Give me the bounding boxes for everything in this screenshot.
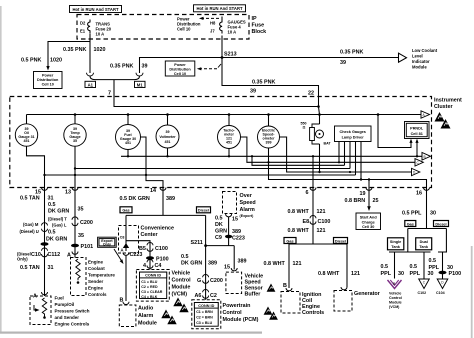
svg-text:7: 7 xyxy=(108,91,111,97)
label box Diesel (pin6) xyxy=(334,238,348,244)
pin 14 bracket xyxy=(150,188,166,195)
svg-text:P100: P100 xyxy=(449,271,462,277)
driver output wires xyxy=(339,142,361,180)
svg-text:0.5 TAN: 0.5 TAN xyxy=(20,265,40,271)
connector G C200 xyxy=(197,275,223,285)
svg-text:35: 35 xyxy=(78,233,84,239)
svg-text:C10: C10 xyxy=(31,252,41,258)
svg-text:B: B xyxy=(424,155,426,159)
over speed alarm dashed box xyxy=(223,192,256,219)
dashed arrow to Power Distribution note xyxy=(199,17,219,20)
svg-text:30: 30 xyxy=(430,211,436,217)
svg-text:0.35 PNK: 0.35 PNK xyxy=(63,47,86,53)
svg-text:C104: C104 xyxy=(436,291,445,295)
svg-text:15: 15 xyxy=(232,217,238,223)
wire 39 S213 to low coolant module xyxy=(222,57,398,59)
svg-text:Indicator: Indicator xyxy=(412,59,430,64)
label 0.35 PNK 39 (to M1) xyxy=(110,64,148,70)
svg-text:Generator: Generator xyxy=(354,291,381,297)
arrow into Power Distribution xyxy=(46,66,49,71)
svg-text:C223: C223 xyxy=(232,236,245,242)
svg-text:15: 15 xyxy=(224,265,230,271)
connector C200 T L xyxy=(48,217,93,228)
svg-text:0.35 PNK: 0.35 PNK xyxy=(252,80,275,86)
instrument cluster dashed box xyxy=(10,97,432,188)
svg-text:Alarm: Alarm xyxy=(240,207,255,213)
svg-text:Cluster: Cluster xyxy=(434,104,453,110)
arrows into PRNDL xyxy=(409,139,418,143)
wire speedo output xyxy=(280,137,412,172)
svg-text:16: 16 xyxy=(416,191,422,197)
ESD triangles near VCM xyxy=(161,298,188,325)
audio alarm module dashed box xyxy=(119,305,136,327)
wire oil tap to driver xyxy=(45,174,356,176)
svg-text:Audio: Audio xyxy=(138,306,154,312)
svg-text:A: A xyxy=(121,248,124,253)
svg-text:451: 451 xyxy=(165,140,171,144)
svg-text:31: 31 xyxy=(48,196,54,202)
svg-text:C4 = BLK: C4 = BLK xyxy=(141,295,157,299)
label DK GRN 389 15 (VSS) xyxy=(224,259,247,271)
svg-text:Vehicle: Vehicle xyxy=(172,271,191,277)
label Ignition Coil Engine Controls xyxy=(302,292,324,316)
svg-text:14: 14 xyxy=(150,188,156,194)
tachometer xyxy=(218,115,241,149)
svg-text:P101: P101 xyxy=(81,244,94,250)
fuse F4 GAUGES pins H8 J7 xyxy=(210,21,216,34)
convenience center xyxy=(119,226,175,254)
svg-text:0.5: 0.5 xyxy=(48,202,56,208)
svg-text:0.5: 0.5 xyxy=(215,216,223,222)
svg-text:(Diesel) T: (Diesel) T xyxy=(48,217,67,222)
svg-text:(Gas) M: (Gas) M xyxy=(23,222,39,227)
svg-text:451: 451 xyxy=(24,139,30,143)
svg-text:C100: C100 xyxy=(155,246,168,252)
grommet on pin15 wire xyxy=(41,242,49,246)
svg-text:C1 = BLU: C1 = BLU xyxy=(141,280,157,284)
svg-text:Pump/Oil: Pump/Oil xyxy=(55,302,75,307)
svg-text:PPL: PPL xyxy=(381,271,392,277)
svg-text:Instrument: Instrument xyxy=(434,98,462,104)
VSS buffer dashed box xyxy=(226,272,242,293)
low coolant level module connector triangle xyxy=(399,53,407,62)
svg-text:Distribution: Distribution xyxy=(37,78,59,82)
generator dashed box xyxy=(334,287,381,311)
node S213 xyxy=(221,52,237,59)
connector C102 triangle xyxy=(418,279,430,295)
wire 39 from fuse F4 to S213 xyxy=(221,36,223,58)
svg-text:C3 = CLEAR: C3 = CLEAR xyxy=(141,290,162,294)
wire S211 down to PCM xyxy=(205,246,207,300)
svg-text:(VCM): (VCM) xyxy=(172,292,188,298)
svg-text:Buffer: Buffer xyxy=(245,292,262,298)
wire pin 6 inside cluster xyxy=(312,156,314,187)
wire S211 to overspeed and VSS xyxy=(206,217,235,270)
label Vehicle Control Module VCM xyxy=(172,271,192,298)
connector A6 C2 xyxy=(195,289,217,299)
svg-text:Lamp Driver: Lamp Driver xyxy=(342,136,365,140)
wire speedo to pin 16 xyxy=(269,148,427,188)
label 0.8 WHT 121 (upper) xyxy=(288,209,326,215)
svg-text:389: 389 xyxy=(238,259,247,265)
svg-text:Control: Control xyxy=(389,296,402,300)
svg-text:0.5: 0.5 xyxy=(429,258,437,264)
dashed arrow from S213 to Power Distribution xyxy=(197,64,221,70)
svg-text:Diesel: Diesel xyxy=(198,209,209,213)
junction dots on bus xyxy=(74,105,380,116)
fuse F20 TRANS symbol xyxy=(88,20,90,34)
connector triangle A (bus out) xyxy=(421,111,430,118)
svg-text:Engine Controls: Engine Controls xyxy=(55,322,90,327)
svg-text:0.35 PNK: 0.35 PNK xyxy=(110,64,133,70)
wire pin 19 inside cluster xyxy=(368,180,370,188)
fuel pump oil pressure switch module xyxy=(30,292,90,327)
svg-text:10 A: 10 A xyxy=(96,32,105,37)
svg-text:A1: A1 xyxy=(88,82,94,87)
label Vehicle Speed Sensor Buffer xyxy=(245,274,264,298)
svg-text:121: 121 xyxy=(351,271,360,277)
connector triangle D xyxy=(412,168,420,175)
svg-text:Over: Over xyxy=(240,193,253,199)
svg-text:DK: DK xyxy=(215,222,223,228)
grommet P101 xyxy=(71,244,93,250)
label TRANS Fuse 20 10 A xyxy=(96,22,112,37)
wire pin 22 to lamp xyxy=(319,97,320,173)
wire WHT 121 pin6 down xyxy=(289,188,347,289)
label box Diesel (pin16) xyxy=(434,221,449,227)
svg-text:0.5: 0.5 xyxy=(48,230,56,236)
svg-text:C3 = BLU: C3 = BLU xyxy=(196,321,212,325)
svg-text:30: 30 xyxy=(428,271,434,277)
connector C223 A xyxy=(121,248,143,259)
tap to VCM via B5 C100 xyxy=(126,241,150,270)
svg-text:15: 15 xyxy=(35,189,41,195)
ignition coil dashed box xyxy=(281,292,300,314)
svg-text:H8: H8 xyxy=(210,21,216,26)
wire PNK 1020 from fuse F20 xyxy=(48,34,90,73)
svg-text:Cell 81: Cell 81 xyxy=(411,132,423,136)
grommet P100 (left) xyxy=(146,256,169,262)
pin 16 bracket xyxy=(416,188,430,197)
svg-text:Convenience: Convenience xyxy=(141,226,175,232)
svg-text:Only): Only) xyxy=(17,257,28,262)
ESD warning triangles near cluster label xyxy=(435,112,451,129)
svg-text:S213: S213 xyxy=(224,52,237,58)
check gauges lamp driver box xyxy=(335,126,372,142)
driver output dots xyxy=(338,161,351,173)
wire BRN 25 pin19 with arrow xyxy=(367,188,371,212)
svg-text:(VCM): (VCM) xyxy=(389,305,400,309)
VCM connector purple V xyxy=(388,280,402,289)
svg-text:Alarm: Alarm xyxy=(138,313,153,319)
fuse F20 TRANS pins D2 E1 xyxy=(80,21,86,34)
svg-text:1020: 1020 xyxy=(50,58,62,64)
electric speedometer xyxy=(258,115,280,149)
svg-text:Level: Level xyxy=(412,54,423,59)
svg-text:0.5 PPL: 0.5 PPL xyxy=(402,211,422,217)
svg-text:Engine: Engine xyxy=(88,260,103,265)
svg-text:Center: Center xyxy=(141,232,159,238)
svg-text:Powertrain: Powertrain xyxy=(223,303,251,309)
label 0.35 PNK 39 (lower) xyxy=(250,80,275,95)
wire tach output xyxy=(241,137,416,162)
svg-text:D2: D2 xyxy=(80,21,86,26)
svg-text:Gas: Gas xyxy=(407,222,414,226)
label Audio Alarm Module xyxy=(138,306,157,327)
VCM module dashed box with conn id table xyxy=(136,270,169,302)
svg-text:Pressure Switch: Pressure Switch xyxy=(55,309,90,314)
label Vehicle Control Module (VCM) right xyxy=(389,292,402,310)
temp gauge xyxy=(64,115,86,147)
label 0.5 DK GRN 35 (upper) xyxy=(48,202,84,215)
connector 4 C4 xyxy=(143,259,161,269)
svg-text:Block: Block xyxy=(252,29,267,35)
connector B ignition xyxy=(283,283,292,291)
label box Diesel (pin14) xyxy=(197,207,211,213)
svg-text:0.8 WHT: 0.8 WHT xyxy=(264,261,286,267)
svg-text:Ω: Ω xyxy=(303,126,306,130)
svg-text:6: 6 xyxy=(306,190,309,196)
svg-text:B5: B5 xyxy=(139,246,146,252)
label 0.5 DK GRN 35 (lower) xyxy=(46,230,84,243)
label 0.5 TAN 31 (upper) xyxy=(20,196,54,202)
wire temp tap xyxy=(75,168,350,170)
svg-text:C102: C102 xyxy=(418,291,427,295)
svg-text:Voltmeter: Voltmeter xyxy=(159,135,176,139)
single tank box xyxy=(388,238,404,250)
svg-text:C112: C112 xyxy=(48,252,61,258)
connector A to coolant sender xyxy=(67,252,78,259)
svg-text:C9: C9 xyxy=(215,235,222,241)
label Powertrain Control Module PCM xyxy=(223,303,259,323)
label Hot in RUN And START (right) xyxy=(194,5,246,12)
svg-text:C1 = BRN: C1 = BRN xyxy=(196,310,213,314)
connector A1 xyxy=(85,73,96,88)
svg-text:Module: Module xyxy=(412,65,427,70)
svg-text:0.8 WHT: 0.8 WHT xyxy=(288,228,310,234)
svg-text:IP: IP xyxy=(252,16,257,22)
svg-text:E8: E8 xyxy=(303,219,310,225)
svg-text:Gas: Gas xyxy=(286,239,293,243)
svg-text:G: G xyxy=(197,278,201,284)
fuel gauge xyxy=(116,115,141,150)
svg-text:451: 451 xyxy=(226,141,232,145)
wire temp gauge to pin 13 xyxy=(74,146,76,187)
label 0.8 BRN 25 xyxy=(345,198,379,204)
svg-text:39: 39 xyxy=(166,130,170,134)
svg-text:Tank: Tank xyxy=(391,245,400,249)
svg-text:Only: Only xyxy=(103,243,111,247)
svg-text:0.8 WHT: 0.8 WHT xyxy=(288,209,310,215)
wire DK GRN 35 pin13 down xyxy=(74,188,76,258)
label 389 C223 overspeed xyxy=(225,229,245,242)
svg-text:0.8 BRN: 0.8 BRN xyxy=(345,198,366,204)
svg-text:389: 389 xyxy=(166,196,175,202)
svg-text:CONN ID: CONN ID xyxy=(145,274,161,278)
connector B audio alarm xyxy=(120,298,130,305)
wire gas branch to audio alarm xyxy=(125,255,127,301)
engine coolant temperature sender module xyxy=(71,258,116,298)
svg-text:Coolant: Coolant xyxy=(88,266,105,271)
svg-text:0.5: 0.5 xyxy=(381,264,389,270)
svg-text:399: 399 xyxy=(266,141,272,145)
svg-text:C2 = RED: C2 = RED xyxy=(141,285,158,289)
wire ground bus 451 xyxy=(121,148,422,156)
svg-text:30: 30 xyxy=(398,271,404,277)
connector C104 triangle xyxy=(436,279,448,295)
svg-text:Module (PCM): Module (PCM) xyxy=(223,317,259,323)
label GAUGES Fuse 4 10 A xyxy=(228,20,246,35)
svg-text:Module: Module xyxy=(172,285,191,291)
svg-text:Controls: Controls xyxy=(302,310,324,316)
svg-text:Control: Control xyxy=(223,310,243,316)
svg-text:PRNDL: PRNDL xyxy=(410,127,424,131)
resistor 550 ohm bypass xyxy=(301,122,320,145)
wire to PRNDL second input xyxy=(416,141,418,156)
label 0.5 PNK 1020 xyxy=(21,58,62,64)
wire PPL 30 pin16 split gas diesel xyxy=(389,188,447,279)
label 0.5 DK GRN 389 (below S211) xyxy=(181,254,217,267)
svg-text:C2: C2 xyxy=(210,293,217,299)
wire 39 feed bus inside cluster xyxy=(27,114,422,116)
wire TAN 31 pin15 down xyxy=(44,188,46,297)
label box Gas (pin16) xyxy=(405,221,416,227)
label 0.8 WHT 121 (diesel branch) xyxy=(318,271,360,277)
label box Gas (pin14) xyxy=(120,207,132,213)
svg-text:22: 22 xyxy=(308,91,314,97)
svg-text:0.5 TAN: 0.5 TAN xyxy=(20,196,40,202)
label 0.5 PPL 30 (C102 branch) xyxy=(410,264,434,277)
svg-text:1020: 1020 xyxy=(94,47,106,53)
svg-text:Cell 10: Cell 10 xyxy=(42,83,54,87)
svg-text:39: 39 xyxy=(250,89,256,95)
voltmeter xyxy=(156,115,179,149)
wire bus to PRNDL xyxy=(378,115,411,148)
svg-text:C200: C200 xyxy=(210,278,223,284)
svg-text:0.35 PNK: 0.35 PNK xyxy=(340,50,363,56)
svg-text:Hot in RUN And START: Hot in RUN And START xyxy=(196,6,242,11)
svg-text:DK GRN: DK GRN xyxy=(48,209,69,215)
svg-text:(Export): (Export) xyxy=(240,214,255,218)
svg-text:S211: S211 xyxy=(191,240,203,246)
svg-text:BAT: BAT xyxy=(324,142,332,146)
svg-text:0.5: 0.5 xyxy=(181,254,189,260)
svg-text:Cell 30: Cell 30 xyxy=(362,225,374,229)
label Instrument Cluster xyxy=(434,98,462,111)
connector to VSS buffer xyxy=(231,268,237,271)
PCM module dashed box with conn id table xyxy=(192,300,221,329)
svg-text:Diesel: Diesel xyxy=(335,239,346,243)
svg-text:C4: C4 xyxy=(155,263,162,269)
ESD triangles near VSS buffer xyxy=(264,284,278,320)
svg-text:Temperature: Temperature xyxy=(88,273,115,278)
svg-text:10 A: 10 A xyxy=(228,30,237,35)
diesel branch labels 0.5 DK GRN C9 xyxy=(215,216,227,242)
svg-text:P100: P100 xyxy=(156,257,169,263)
svg-text:121: 121 xyxy=(317,209,326,215)
wire speedo tap xyxy=(252,156,345,165)
svg-text:GRN: GRN xyxy=(215,229,227,235)
connector 15 overspeed xyxy=(226,214,238,223)
svg-text:Diesel: Diesel xyxy=(435,222,446,226)
svg-text:Fuse: Fuse xyxy=(252,23,265,29)
svg-text:Cell 10: Cell 10 xyxy=(177,27,191,32)
svg-text:Low Coolant: Low Coolant xyxy=(412,48,438,53)
pin 19 bracket xyxy=(360,188,373,198)
oil gauge xyxy=(15,115,37,147)
pin 6 bracket xyxy=(306,188,317,197)
wire fuel gauge sender to pin 14 xyxy=(141,137,164,188)
svg-text:PPL: PPL xyxy=(429,265,440,271)
wire 39 S213 down to cluster pin 22 xyxy=(222,58,319,97)
node S211 xyxy=(191,240,208,247)
svg-text:31: 31 xyxy=(48,265,54,271)
connector C112 xyxy=(17,248,60,261)
svg-text:389: 389 xyxy=(208,261,217,267)
svg-text:Cell 10: Cell 10 xyxy=(174,72,186,76)
connector M U xyxy=(20,222,48,234)
label Hot in RUN And START (left) xyxy=(70,6,122,13)
IP fuse block dashed box xyxy=(77,15,249,40)
svg-text:Vehicle: Vehicle xyxy=(389,292,401,296)
svg-text:DK GRN: DK GRN xyxy=(181,261,202,267)
svg-text:Sender: Sender xyxy=(88,279,104,284)
svg-text:Control: Control xyxy=(172,278,192,284)
label IP Fuse Block xyxy=(252,16,267,35)
svg-text:19: 19 xyxy=(360,191,366,197)
svg-text:(Diesel) U: (Diesel) U xyxy=(20,229,39,234)
label 0.35 PNK 1020 xyxy=(63,47,106,53)
svg-text:Charge: Charge xyxy=(362,220,375,224)
svg-text:121: 121 xyxy=(293,261,302,267)
wire pin7 to pin22 column xyxy=(114,97,319,107)
svg-text:Check Gauges: Check Gauges xyxy=(340,130,366,134)
export only box xyxy=(98,237,124,264)
svg-text:and Sender: and Sender xyxy=(55,315,80,320)
svg-text:Single: Single xyxy=(390,240,401,244)
connector M1 xyxy=(135,73,146,88)
svg-text:Gas: Gas xyxy=(122,209,129,213)
svg-text:Engine: Engine xyxy=(88,286,103,291)
label box Gas (pin6) xyxy=(284,238,296,244)
svg-text:0.5 DK GRN: 0.5 DK GRN xyxy=(120,196,150,202)
svg-text:39: 39 xyxy=(340,60,346,66)
svg-text:C100: C100 xyxy=(318,219,331,225)
connector triangle C xyxy=(415,159,423,166)
svg-text:121: 121 xyxy=(317,228,326,234)
wire 39 S213 to M1 xyxy=(140,58,223,74)
svg-text:0.8 WHT: 0.8 WHT xyxy=(318,271,340,277)
svg-text:451: 451 xyxy=(125,141,131,145)
svg-text:M1: M1 xyxy=(137,82,143,87)
svg-text:13: 13 xyxy=(65,189,71,195)
connector triangle B xyxy=(422,153,431,161)
svg-text:39: 39 xyxy=(142,64,148,70)
svg-text:J7: J7 xyxy=(210,29,215,34)
svg-text:C2 = BRN: C2 = BRN xyxy=(196,316,213,320)
label 0.5 DK GRN 389 xyxy=(120,196,176,202)
connector E8 C100 xyxy=(303,216,331,226)
label 0.5 PPL 30 (pin16) xyxy=(402,211,436,217)
svg-text:Power: Power xyxy=(42,74,54,78)
svg-text:A6: A6 xyxy=(195,293,202,299)
svg-text:35: 35 xyxy=(73,139,77,143)
PRNDL box xyxy=(405,122,430,139)
svg-text:Controls: Controls xyxy=(88,292,107,297)
svg-text:Start And: Start And xyxy=(360,216,378,220)
svg-text:389: 389 xyxy=(232,229,241,235)
svg-text:C8: C8 xyxy=(120,236,125,240)
